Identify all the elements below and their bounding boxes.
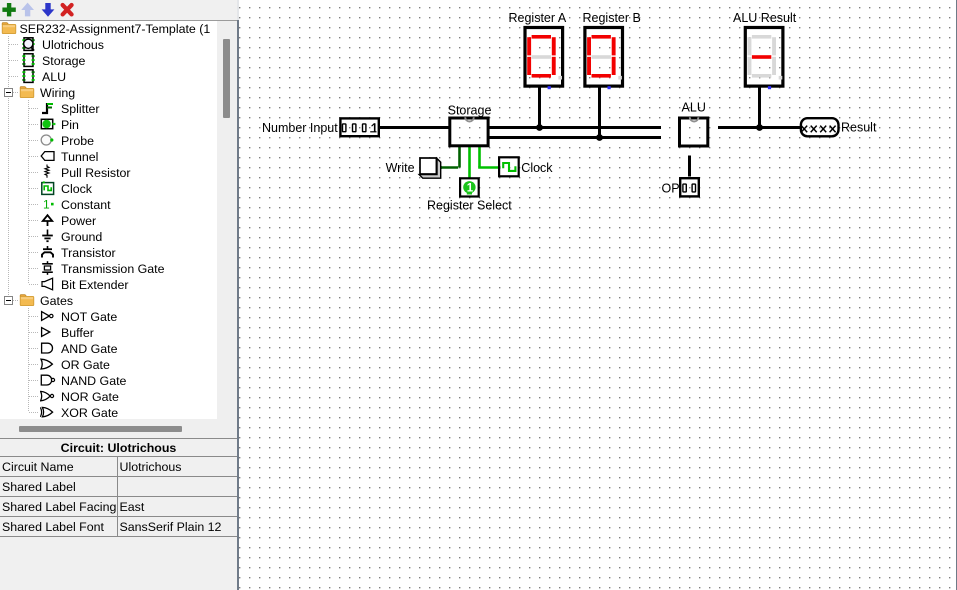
- svg-text:Register Select: Register Select: [427, 199, 512, 213]
- svg-text:1: 1: [467, 183, 474, 195]
- svg-text:Write: Write: [386, 161, 415, 175]
- svg-text:Register B: Register B: [583, 11, 641, 25]
- svg-text:ALU Result: ALU Result: [733, 11, 797, 25]
- svg-text:Storage: Storage: [448, 103, 492, 117]
- svg-text:ALU: ALU: [682, 100, 706, 114]
- svg-text:Result: Result: [841, 121, 877, 135]
- svg-text:Number Input: Number Input: [262, 121, 338, 135]
- svg-text:Clock: Clock: [521, 161, 553, 175]
- svg-text:OP: OP: [662, 181, 680, 195]
- svg-text:Register A: Register A: [509, 11, 567, 25]
- svg-text:1: 1: [43, 198, 50, 212]
